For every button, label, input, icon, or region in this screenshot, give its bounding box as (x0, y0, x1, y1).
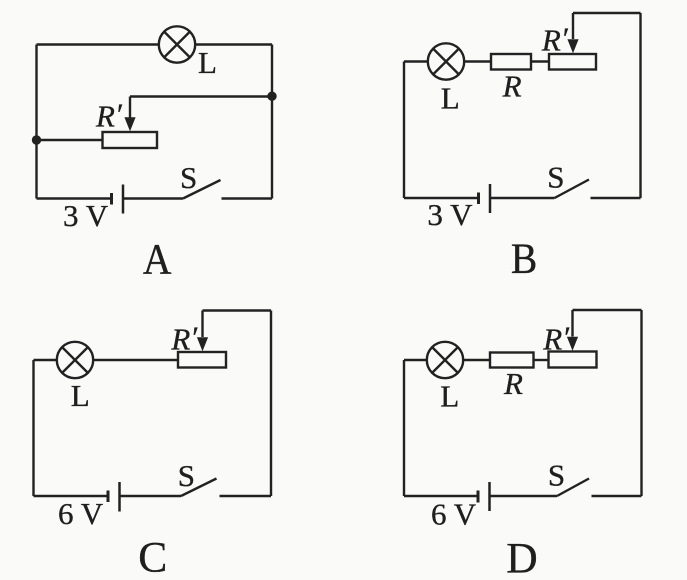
svg-text:R: R (503, 366, 523, 401)
battery 6V negative plate (circuit C) (107, 491, 110, 503)
wire: D switch right segment (592, 495, 642, 497)
battery 3V positive plate (circuit B) (489, 184, 492, 213)
svg-text:3 V: 3 V (427, 197, 473, 232)
svg-text:L: L (440, 379, 459, 414)
switch S blade (circuit C) (181, 479, 217, 497)
wiper arrow (circuit C) (197, 337, 208, 351)
svg-text:3 V: 3 V (63, 198, 109, 233)
svg-text:C: C (138, 534, 167, 580)
wire: A left vertical (35, 45, 37, 199)
wire: D lamp to R (463, 359, 490, 361)
svg-text:6 V: 6 V (431, 496, 477, 531)
wire: C left vertical (32, 360, 34, 496)
lamp L (circuit B) (428, 43, 464, 79)
svg-text:R′: R′ (95, 97, 123, 134)
wire: A rheostat left lead (37, 139, 103, 141)
battery 3V negative plate (circuit A) (110, 193, 113, 205)
wire: B battery to switch (490, 197, 555, 199)
rheostat R' (circuit D) (549, 352, 597, 368)
wire: D R to R' (534, 359, 549, 361)
wire: C lamp to rheostat (93, 359, 178, 361)
svg-text:L: L (441, 81, 460, 116)
wire: C switch right segment (220, 495, 272, 497)
battery 6V positive plate (circuit D) (488, 482, 491, 511)
wire: D wiper vertical (571, 310, 573, 337)
wiper arrow (circuit A) (124, 117, 135, 131)
wire: A bottom-left segment (37, 197, 112, 199)
svg-text:6 V: 6 V (58, 496, 104, 531)
switch S blade (circuit D) (557, 479, 589, 497)
wire: D bottom-left segment (404, 495, 478, 497)
battery 3V positive plate (circuit A) (122, 185, 125, 214)
battery 6V positive plate (circuit C) (118, 482, 121, 512)
wiper arrow (circuit D) (567, 337, 578, 351)
wire: A wiper feed horizontal (130, 95, 272, 97)
lamp L (circuit D) (427, 342, 463, 378)
svg-text:S: S (547, 160, 564, 195)
svg-text:A: A (143, 235, 172, 283)
battery 6V negative plate (circuit D) (477, 491, 480, 503)
svg-text:D: D (506, 534, 537, 580)
switch S blade (circuit A) (183, 180, 221, 199)
svg-text:S: S (548, 458, 565, 493)
wire: C bottom-left segment (34, 495, 109, 497)
wire: D battery to switch (490, 495, 558, 497)
wire: D right vertical (640, 310, 642, 496)
wire: B switch right segment (591, 197, 641, 199)
wire: B wiper vertical (572, 13, 574, 39)
wire: C wiper feed horizontal (203, 309, 272, 311)
lamp L (circuit A) (159, 26, 195, 62)
svg-text:L: L (198, 45, 217, 80)
svg-text:R′: R′ (541, 21, 569, 58)
wire: B R to R' (531, 60, 549, 62)
wire: A top-right segment from lamp (195, 43, 272, 45)
svg-text:R′: R′ (542, 320, 570, 357)
node: A junction dot on right wire (267, 92, 276, 101)
switch S blade (circuit B) (555, 180, 590, 199)
wire: B right vertical (639, 13, 641, 198)
svg-text:S: S (180, 160, 197, 195)
wire: B left vertical (403, 62, 405, 199)
wire: C right vertical (270, 311, 272, 497)
svg-text:S: S (178, 458, 195, 493)
node: A junction dot on left wire (32, 135, 41, 144)
svg-text:L: L (71, 378, 90, 413)
wire: B bottom-left segment (404, 197, 479, 199)
resistor R (circuit B) (491, 54, 531, 70)
wire: D left lead to lamp (404, 359, 427, 361)
wire: A top-left segment to lamp (37, 43, 159, 45)
wire: A right vertical (271, 45, 273, 199)
wire: B lamp to R (464, 60, 491, 62)
wire: C wiper vertical (201, 311, 203, 338)
rheostat R' (circuit B) (549, 54, 596, 70)
wire: D wiper feed horizontal (573, 309, 642, 311)
wire: A wiper vertical (129, 97, 131, 120)
wire: A switch right segment (222, 197, 273, 199)
lamp L (circuit C) (57, 342, 93, 378)
svg-text:B: B (511, 234, 537, 282)
wire: D left vertical (403, 360, 405, 496)
svg-text:R: R (502, 69, 522, 104)
wire: B wiper feed horizontal (573, 12, 641, 14)
svg-text:R′: R′ (170, 320, 198, 357)
wire: C left lead to lamp (34, 359, 58, 361)
resistor R (circuit D) (490, 353, 534, 368)
rheostat R' (circuit A) (103, 132, 158, 148)
rheostat R' (circuit C) (178, 352, 226, 368)
wiper arrow (circuit B) (567, 39, 578, 53)
wire: C battery to switch (120, 495, 182, 497)
wire: A battery to switch (123, 197, 183, 199)
wire: B left lead to lamp (404, 60, 428, 62)
battery 3V negative plate (circuit B) (477, 193, 480, 205)
